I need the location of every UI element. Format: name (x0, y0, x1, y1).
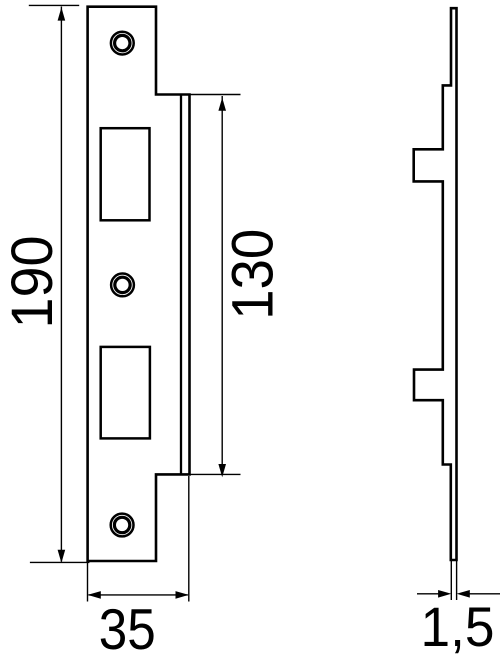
latch cutout (top rectangle) (101, 128, 150, 220)
dimension text 130 (221, 229, 286, 320)
extension line right of 1,5 dimension (456, 561, 458, 600)
screw hole bottom (111, 514, 134, 537)
dimension text 1,5 (421, 596, 495, 654)
extension line top of 130 dimension (190, 94, 241, 96)
extension line top of 190 dimension (29, 4, 79, 6)
svg-text:190: 190 (0, 236, 65, 329)
extension line right of 35 dimension (188, 476, 190, 602)
dimension line 1,5 left segment with arrow (417, 590, 451, 598)
screw hole top (111, 32, 134, 55)
dimension line 1,5 right segment with arrow (457, 590, 500, 598)
svg-text:35: 35 (99, 598, 156, 654)
lip fold line (180, 95, 182, 475)
dimension line 35 (88, 591, 189, 599)
side view profile outline (414, 8, 457, 560)
dimension line 130 (218, 96, 226, 477)
screw hole middle (111, 274, 134, 297)
extension line bottom of 190 dimension (30, 561, 90, 563)
dimension line 190 (58, 7, 66, 564)
extension line left of 35 dimension (87, 563, 89, 602)
svg-text:1,5: 1,5 (421, 596, 495, 654)
svg-text:130: 130 (221, 229, 286, 320)
dimension text 35 (99, 598, 156, 654)
deadbolt cutout (bottom rectangle) (101, 347, 150, 439)
extension line left of 1,5 dimension (450, 561, 452, 600)
front view plate outline (88, 7, 190, 561)
extension line bottom of 130 dimension (190, 473, 241, 475)
dimension text 190 (0, 236, 65, 329)
